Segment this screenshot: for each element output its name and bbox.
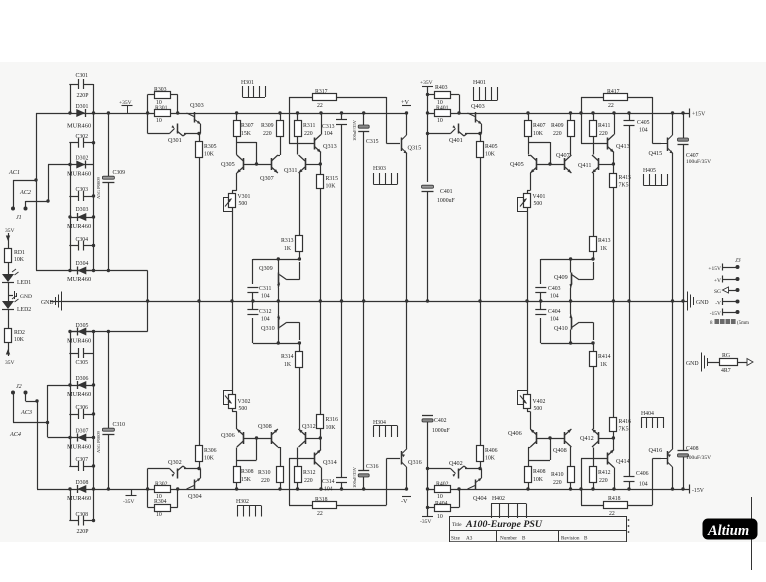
svg-text:10: 10: [437, 118, 443, 124]
svg-text:H301: H301: [241, 80, 254, 86]
svg-text:Q403: Q403: [471, 103, 485, 110]
connector J2: [11, 384, 28, 395]
capacitor C406: [624, 301, 649, 491]
wire Q406-Q408 bases: [537, 438, 565, 440]
header H405: [643, 168, 668, 186]
svg-text:7K5: 7K5: [619, 427, 629, 433]
svg-text:10: 10: [437, 514, 443, 520]
svg-text:+V: +V: [714, 278, 721, 284]
resistor R404: [426, 501, 451, 520]
header H301: [241, 80, 266, 98]
svg-text:C312: C312: [259, 309, 272, 315]
header H302: [236, 499, 262, 517]
svg-text:R315: R315: [326, 176, 339, 182]
resistor R409: [551, 111, 575, 155]
svg-text:R310: R310: [258, 470, 271, 476]
power -V: [401, 497, 411, 506]
svg-text:V301: V301: [238, 194, 251, 200]
transistor Q311: [284, 155, 322, 174]
svg-text:R311: R311: [303, 123, 315, 129]
wire Q409 base: [540, 259, 542, 284]
capacitor C302: [69, 134, 93, 148]
header H303: [373, 166, 398, 185]
power -15V: [690, 485, 705, 495]
svg-text:104: 104: [550, 317, 559, 323]
connector J3 SG: [714, 287, 740, 295]
resistor R302: [155, 482, 171, 501]
svg-text:Q406: Q406: [508, 430, 522, 437]
wire R303 loop: [146, 95, 179, 134]
resistor RD1: [5, 249, 26, 264]
transistor Q415: [649, 111, 675, 157]
svg-text:C315: C315: [366, 139, 379, 145]
svg-text:R410: R410: [551, 472, 564, 478]
power +35V right: [420, 80, 433, 91]
wire ladder lower left rail: [68, 330, 71, 521]
svg-text:10K: 10K: [485, 152, 496, 158]
resistor R413: [590, 173, 611, 261]
svg-text:Q314: Q314: [323, 459, 337, 466]
capacitor C310: [96, 332, 125, 491]
svg-text:A5G P0009: A5G P0009: [96, 430, 101, 453]
wire Q305 mirror tie: [237, 142, 259, 166]
svg-text:10K: 10K: [204, 152, 215, 158]
svg-text:AC4: AC4: [9, 431, 21, 438]
ground RG: [686, 353, 719, 372]
svg-text:MUR460: MUR460: [67, 338, 91, 345]
svg-text:D302: D302: [76, 156, 89, 162]
diode D303: [67, 207, 94, 230]
svg-text:C309: C309: [113, 170, 126, 176]
svg-text:H303: H303: [373, 166, 386, 172]
svg-text:LED2: LED2: [17, 307, 31, 313]
diode D308: [67, 480, 91, 502]
svg-text:C404: C404: [548, 309, 561, 315]
svg-text:-35V: -35V: [123, 499, 134, 505]
svg-text:RD2: RD2: [14, 330, 25, 336]
svg-text:Q411: Q411: [578, 162, 592, 169]
wire LED1-GND: [8, 283, 13, 296]
svg-text:Q306: Q306: [221, 432, 235, 439]
svg-text:-15V: -15V: [692, 488, 705, 494]
resistor R314: [281, 341, 303, 429]
wire D305 row to centre: [70, 330, 148, 333]
svg-text:10K: 10K: [533, 131, 544, 137]
resistor R408: [525, 448, 546, 491]
power 35V lower: [5, 342, 15, 366]
resistor R415: [610, 153, 632, 303]
svg-text:-V: -V: [715, 301, 721, 307]
wire centre tap: [146, 271, 149, 332]
svg-text:Size: Size: [451, 536, 461, 542]
wire AC3: [26, 394, 39, 489]
capacitor C306: [69, 405, 93, 419]
resistor R417: [581, 89, 653, 109]
svg-text:10K: 10K: [533, 477, 544, 483]
transistor Q316: [402, 449, 422, 491]
resistor R407: [525, 111, 546, 154]
wire Q413 base row: [581, 143, 608, 145]
transistor Q411: [578, 155, 615, 173]
capacitor C407: [678, 111, 712, 302]
transistor Q310: [261, 301, 300, 343]
wire Q305-Q307 bases: [243, 164, 271, 166]
wire Q405-Q407 bases: [537, 164, 565, 166]
svg-text:220: 220: [553, 480, 562, 486]
wire Q309 node row: [253, 257, 300, 260]
svg-text:MUR460: MUR460: [67, 495, 91, 502]
svg-text:Q404: Q404: [473, 495, 487, 502]
logo Altium: [703, 519, 758, 540]
svg-text:C307: C307: [76, 457, 89, 463]
svg-text:10K: 10K: [326, 184, 337, 190]
diode D302: [67, 156, 94, 178]
svg-text:Q309: Q309: [259, 265, 273, 272]
transistor Q412: [580, 429, 615, 447]
wire D304 row to centre: [36, 270, 148, 272]
wire R318 left leg: [289, 459, 291, 506]
resistor R402: [435, 482, 451, 501]
svg-text:MUR460: MUR460: [67, 444, 91, 451]
svg-text:R406: R406: [485, 448, 498, 454]
svg-text:Q408: Q408: [553, 447, 567, 454]
svg-text:LED1: LED1: [17, 280, 31, 286]
svg-text:C308: C308: [76, 512, 89, 518]
svg-text:15K: 15K: [241, 477, 252, 483]
svg-text:Q414: Q414: [616, 458, 630, 465]
resistor R313: [281, 173, 303, 261]
header H304: [373, 420, 398, 437]
svg-text:Q415: Q415: [649, 150, 663, 157]
resistor R318: [289, 497, 387, 517]
svg-text:R309: R309: [261, 123, 274, 129]
svg-text:C302: C302: [76, 134, 89, 140]
svg-text:R308: R308: [241, 469, 254, 475]
svg-text:104: 104: [261, 294, 270, 300]
connector J3 +V: [714, 276, 740, 285]
wire Q406 mirror tie: [528, 436, 552, 460]
transistor Q410: [554, 301, 594, 343]
svg-text:220: 220: [553, 131, 562, 137]
resistor R301: [155, 106, 171, 125]
capacitor C401: [422, 185, 456, 302]
svg-text:MUR460: MUR460: [67, 171, 91, 178]
wire +35V rail top left: [36, 113, 407, 271]
resistor R317: [289, 89, 387, 109]
resistor R311: [295, 111, 316, 154]
label size: [451, 536, 473, 542]
wire Q402 collector: [464, 466, 482, 472]
svg-text:Q410: Q410: [554, 325, 568, 332]
svg-text:Q308: Q308: [258, 423, 272, 430]
svg-text:4R7: 4R7: [721, 368, 731, 374]
sheet border right: [751, 497, 753, 570]
transistor Q307: [260, 155, 280, 182]
svg-text:10K: 10K: [485, 456, 496, 462]
ground LED mid: [15, 291, 32, 300]
transistor Q309: [259, 259, 300, 303]
wire Q310 base: [252, 318, 254, 343]
wire Q313 base row: [289, 143, 315, 145]
capacitor C304: [69, 237, 93, 251]
resistor R312: [295, 448, 316, 491]
svg-text:MUR460: MUR460: [67, 391, 91, 398]
capacitor C316: [352, 301, 379, 491]
svg-text:C303: C303: [76, 187, 89, 193]
wire RD1-LED1: [8, 262, 10, 274]
wire Q309 base: [252, 259, 254, 284]
svg-text:104: 104: [639, 128, 648, 134]
svg-text:C403: C403: [548, 286, 561, 292]
svg-text:Q401: Q401: [449, 137, 463, 144]
capacitor C402: [422, 416, 450, 435]
svg-text:Q315: Q315: [408, 145, 422, 152]
wire Q415 emitter: [671, 154, 674, 303]
svg-text:104: 104: [261, 317, 270, 323]
svg-text:V402: V402: [533, 399, 546, 405]
potentiometer V401: [517, 173, 545, 303]
wire +35V feed: [427, 91, 429, 183]
svg-text:Q310: Q310: [261, 325, 275, 332]
svg-text:B: B: [584, 536, 588, 542]
wire -35V feed: [427, 420, 429, 512]
transistor Q313: [315, 111, 337, 152]
potentiometer V302: [223, 301, 250, 429]
power -35V left: [123, 489, 137, 505]
svg-text:104: 104: [550, 294, 559, 300]
wire AC3 stub to D306: [48, 385, 71, 423]
wire R317 left leg: [289, 97, 291, 144]
svg-text:15K: 15K: [241, 131, 252, 137]
title block dots: [628, 519, 630, 533]
svg-text:Q304: Q304: [188, 493, 202, 500]
svg-text:+15V: +15V: [708, 266, 721, 272]
transistor Q315: [402, 111, 422, 153]
svg-text:Q312: Q312: [302, 423, 316, 430]
connector J3 label: [735, 258, 741, 264]
node AC4: [9, 431, 21, 438]
resistor RG: [720, 353, 754, 374]
capacitor C309: [96, 111, 125, 272]
svg-text:500: 500: [534, 406, 543, 412]
svg-text:R412: R412: [598, 470, 611, 476]
diode D304: [67, 261, 94, 283]
transistor Q416: [649, 447, 675, 491]
transistor Q306: [221, 429, 244, 447]
svg-text:220: 220: [304, 478, 313, 484]
svg-text:SG: SG: [714, 289, 721, 295]
svg-text:C310: C310: [113, 422, 126, 428]
svg-text:10K: 10K: [14, 257, 25, 263]
capacitor C311: [247, 286, 271, 303]
svg-text:R414: R414: [598, 354, 611, 360]
resistor R418: [581, 496, 653, 517]
svg-text:10: 10: [437, 494, 443, 500]
svg-text:D303: D303: [76, 207, 89, 213]
svg-text:Q303: Q303: [190, 102, 204, 109]
wire Q316 emitter: [406, 301, 408, 449]
wire Q306-Q308 bases: [243, 438, 271, 440]
svg-text:220: 220: [599, 478, 608, 484]
svg-text:Q409: Q409: [554, 274, 568, 281]
connector J3 -V: [715, 298, 739, 307]
svg-text:A5G P0009: A5G P0009: [96, 176, 101, 199]
resistor R310: [258, 447, 284, 491]
svg-text:AC2: AC2: [19, 189, 31, 196]
resistor R406: [477, 301, 498, 469]
transistor Q303: [187, 102, 204, 130]
transistor Q305: [221, 155, 244, 174]
svg-text:C305: C305: [76, 360, 89, 366]
resistor R401: [435, 106, 451, 125]
svg-text:A100-Europe PSU: A100-Europe PSU: [465, 519, 543, 529]
svg-text:B: B: [522, 536, 526, 542]
svg-text:R403: R403: [435, 85, 448, 91]
capacitor C303: [69, 187, 93, 201]
transistor Q403: [468, 103, 485, 130]
wire Q302 collector: [183, 466, 201, 472]
capacitor C308: [69, 512, 93, 535]
transistor Q304: [187, 472, 202, 500]
transistor Q302: [148, 459, 183, 479]
wire R403 loop: [426, 95, 461, 115]
svg-text:(5mm: (5mm: [737, 321, 749, 326]
capacitor C404: [535, 301, 560, 323]
svg-text:104: 104: [324, 131, 333, 137]
svg-text:+35V: +35V: [420, 80, 433, 86]
svg-text:R411: R411: [598, 123, 610, 129]
svg-text:R405: R405: [485, 144, 498, 150]
node AC3: [20, 409, 32, 416]
wire AC1: [13, 178, 38, 207]
wire Q310 node row: [253, 341, 300, 344]
resistor R304: [154, 499, 171, 518]
svg-text:C402: C402: [434, 418, 447, 424]
svg-text:C316: C316: [366, 464, 379, 470]
svg-text:R305: R305: [204, 144, 217, 150]
wire AC2 to D302: [48, 165, 70, 202]
svg-text:J1: J1: [16, 215, 22, 221]
svg-text:D304: D304: [76, 261, 89, 267]
transistor Q308: [258, 423, 280, 448]
svg-text:AC3: AC3: [20, 409, 32, 416]
svg-text:RD1: RD1: [14, 250, 25, 256]
resistor R405: [477, 134, 498, 303]
svg-text:10: 10: [156, 118, 162, 124]
header H402: [491, 496, 527, 518]
svg-text:R409: R409: [551, 123, 564, 129]
header H401: [473, 80, 498, 101]
svg-text:22: 22: [317, 511, 323, 517]
wire ladder lower right rail: [92, 330, 95, 522]
svg-text:R312: R312: [303, 470, 316, 476]
wire ladder left rail: [68, 84, 71, 272]
LED LED2: [2, 295, 31, 313]
wire AC2: [26, 199, 50, 207]
wire -15V rail bottom right: [427, 489, 689, 491]
transistor Q402: [426, 460, 464, 479]
svg-text:10: 10: [156, 512, 162, 518]
svg-text:35V: 35V: [5, 228, 15, 234]
svg-text:MUR460: MUR460: [67, 223, 91, 230]
svg-text:Q302: Q302: [168, 459, 182, 466]
svg-text:R314: R314: [281, 354, 294, 360]
svg-text:R408: R408: [533, 469, 546, 475]
capacitor C301: [69, 73, 93, 99]
svg-text:GND: GND: [20, 294, 32, 300]
svg-text:35V: 35V: [5, 360, 15, 366]
svg-text:R407: R407: [533, 123, 546, 129]
svg-text:1K: 1K: [284, 246, 292, 252]
svg-text:C313: C313: [322, 124, 335, 130]
wire +15V rail top right: [427, 113, 689, 115]
svg-text:V401: V401: [533, 194, 546, 200]
resistor R412: [590, 448, 611, 491]
power +V: [401, 99, 411, 106]
svg-text:C314: C314: [322, 479, 335, 485]
wire ladder right rail: [92, 84, 95, 272]
wire Q410 node row: [541, 341, 593, 344]
svg-text:A3: A3: [466, 536, 473, 542]
capacitor C314: [322, 301, 347, 493]
svg-text:10K: 10K: [204, 456, 215, 462]
capacitor C307: [69, 457, 93, 471]
wire Q405 mirror tie: [528, 142, 552, 166]
transistor Q413: [608, 111, 630, 152]
svg-text:100uF/35V: 100uF/35V: [686, 159, 711, 165]
resistor RD2: [5, 329, 26, 344]
transistor Q401: [426, 124, 464, 145]
transistor Q409: [554, 259, 594, 303]
svg-text:J2: J2: [16, 384, 22, 390]
wire R417 right leg: [653, 97, 662, 144]
svg-text:GND: GND: [696, 300, 709, 306]
ground main right: [683, 292, 709, 311]
svg-text:H402: H402: [492, 496, 505, 502]
svg-text:Revision: Revision: [561, 536, 580, 542]
svg-text:Q301: Q301: [168, 137, 182, 144]
svg-text:10K: 10K: [14, 337, 25, 343]
transistor Q408: [553, 429, 571, 454]
transistor Q407: [556, 152, 571, 173]
svg-text:220P: 220P: [77, 93, 89, 99]
connector J3 -15V: [710, 309, 740, 318]
svg-text:-35V: -35V: [420, 519, 431, 525]
capacitor C403: [535, 286, 560, 303]
node AC2: [19, 189, 31, 196]
wire Q315 emitter: [405, 154, 408, 303]
svg-text:R306: R306: [204, 448, 217, 454]
transistor Q414: [608, 450, 630, 491]
svg-text:C405: C405: [637, 120, 650, 126]
wire Q314 base row: [289, 458, 315, 460]
capacitor C315: [352, 111, 379, 302]
svg-text:500: 500: [239, 201, 248, 207]
svg-text:Q412: Q412: [580, 435, 594, 442]
svg-text:H404: H404: [641, 411, 654, 417]
resistor R309: [261, 111, 284, 155]
svg-text:Q413: Q413: [616, 143, 630, 150]
svg-text:Number: Number: [500, 536, 517, 542]
title block frame: [449, 516, 627, 542]
wire Q416 emitter: [672, 301, 674, 449]
transistor Q405: [510, 155, 537, 173]
resistor R308: [234, 448, 254, 491]
svg-text:R316: R316: [326, 417, 339, 423]
svg-text:220: 220: [261, 478, 270, 484]
resistor R414: [590, 341, 611, 429]
svg-text:500: 500: [534, 201, 543, 207]
